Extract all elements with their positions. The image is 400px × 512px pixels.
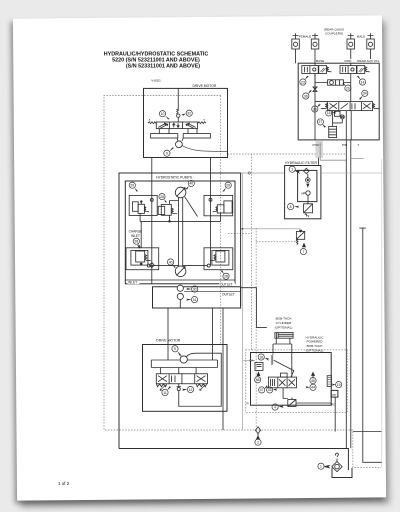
accumulator [329, 126, 337, 137]
manifold lines [151, 360, 217, 368]
filter inner box [298, 170, 317, 201]
svg-text:ROD: ROD [345, 59, 353, 63]
svg-text:BOB-TACH: BOB-TACH [307, 344, 323, 348]
relief valve TL [138, 204, 144, 213]
svg-text:40: 40 [189, 182, 193, 186]
hydraulic filter box [285, 166, 321, 219]
port circle BL [147, 264, 150, 267]
callout 43 [267, 387, 273, 393]
callout 14 [359, 79, 365, 85]
relief valve mid 28 [158, 206, 165, 214]
svg-text:HYDRAULIC FILTER: HYDRAULIC FILTER [285, 161, 318, 165]
coupler male 2 [367, 33, 375, 63]
callout 1 tank [318, 463, 324, 469]
swash diagonal [185, 197, 198, 217]
dashed pilot line C to rear aux [228, 153, 347, 155]
DA / PP / PC / R labels [247, 358, 337, 406]
callout 40 top [188, 180, 194, 186]
coupler labels [299, 28, 365, 39]
svg-text:46: 46 [311, 379, 315, 383]
svg-text:OUTLET: OUTLET [220, 283, 233, 287]
callout 18 [258, 354, 264, 360]
breather [336, 453, 339, 461]
svg-text:28: 28 [224, 275, 228, 279]
check diamond in filter [304, 168, 309, 173]
arrow into tank filter [325, 466, 330, 468]
pilot check block [334, 111, 340, 116]
svg-text:31: 31 [193, 298, 197, 302]
svg-text:4: 4 [274, 405, 276, 409]
svg-text:15: 15 [327, 111, 331, 115]
callout 44 [310, 384, 316, 390]
svg-text:19: 19 [337, 383, 341, 387]
callout 8 [288, 204, 294, 210]
callout 36 [303, 93, 309, 99]
filter element square [304, 204, 313, 213]
port circle BR [207, 264, 210, 267]
svg-text:1 of 2: 1 of 2 [58, 481, 70, 486]
spring right [198, 122, 206, 124]
svg-text:18: 18 [259, 355, 263, 359]
return loop [179, 353, 222, 406]
main spool valve [328, 102, 373, 111]
svg-text:MALE: MALE [357, 35, 365, 39]
callout 29 TR [225, 182, 231, 188]
svg-text:BASE: BASE [316, 59, 324, 63]
hydrostatic pumps box [125, 181, 235, 284]
callout 34 [362, 90, 368, 96]
wire POUT to filter [318, 158, 320, 166]
bypass circle with dot [306, 178, 311, 183]
svg-text:HYDROSTATIC PUMPS: HYDROSTATIC PUMPS [156, 175, 193, 179]
callout 9 bottom [172, 346, 178, 352]
svg-text:V-6021: V-6021 [151, 79, 161, 83]
port connection wires [150, 265, 207, 267]
callout 11 [162, 389, 168, 395]
case drain line [359, 228, 381, 462]
relief valve TR [217, 205, 224, 213]
wire right [210, 158, 212, 182]
svg-text:(OPTIONAL): (OPTIONAL) [275, 325, 293, 329]
callout 10 [159, 111, 165, 117]
relief valve V7 [296, 231, 304, 239]
bob-tach spool valve [268, 377, 296, 388]
svg-text:HYDRAULIC/HYDROSTATIC SCHEMATI: HYDRAULIC/HYDROSTATIC SCHEMATIC [104, 52, 209, 58]
svg-text:48: 48 [256, 378, 260, 382]
svg-text:CHARGE: CHARGE [129, 230, 143, 234]
motor circle M1 [176, 141, 183, 148]
stub at 159 [351, 158, 364, 160]
motor drain curve [182, 146, 228, 152]
svg-text:8: 8 [290, 205, 292, 209]
valve arrows [158, 123, 166, 127]
port circle TR [209, 198, 212, 201]
drive valve body [156, 122, 197, 129]
solenoid valve ROD [340, 66, 365, 74]
callout 19 [336, 382, 342, 388]
svg-text:1: 1 [320, 465, 322, 469]
svg-text:R: R [247, 402, 249, 406]
internal wires [315, 102, 351, 140]
callout 47 [259, 387, 265, 393]
outlet circles [177, 285, 183, 291]
pump circle P1 [175, 187, 186, 198]
callout 30 [192, 286, 198, 292]
svg-text:11: 11 [163, 391, 167, 395]
svg-text:T: T [357, 143, 359, 147]
pump circle P2 [175, 266, 186, 277]
faint right-edge trunk [241, 159, 382, 468]
bob-tach optional dashed box [246, 350, 348, 413]
bottom right horizontal [353, 431, 382, 433]
coupler male 1 [347, 33, 355, 65]
svg-text:(OPTIONAL): (OPTIONAL) [306, 349, 324, 353]
svg-text:(S/N 523311001 AND ABOVE): (S/N 523311001 AND ABOVE) [126, 64, 200, 70]
travel valve body [156, 374, 207, 384]
svg-text:29: 29 [226, 184, 230, 188]
callout 48 [255, 377, 261, 383]
svg-text:HYDRAULIC: HYDRAULIC [306, 335, 325, 339]
svg-text:33: 33 [313, 107, 317, 111]
dashed stub at pumps right [228, 233, 252, 235]
callout 28 mid [159, 194, 165, 200]
svg-text:12: 12 [189, 388, 193, 392]
charge line left [141, 181, 210, 284]
gray link wires [242, 173, 300, 430]
wires around crossover [315, 74, 351, 102]
callout 31 [191, 297, 197, 303]
PIN line down [345, 140, 347, 448]
svg-text:28: 28 [160, 195, 164, 199]
down arrow [307, 184, 309, 187]
inner bottom line [125, 279, 235, 281]
svg-text:29: 29 [130, 184, 134, 188]
svg-text:27: 27 [319, 120, 323, 124]
svg-text:INLET: INLET [131, 234, 140, 238]
CHARGE INLET label [129, 230, 143, 239]
dashed vert inside top drive motor [220, 96, 222, 345]
callout 46 [310, 378, 316, 384]
bob-tach PP port box [331, 390, 338, 397]
relief block BL [126, 248, 159, 270]
coupler female 2 [311, 33, 319, 65]
svg-text:BOB-TACH: BOB-TACH [276, 317, 292, 321]
svg-text:A: A [149, 119, 151, 122]
cross-over component [328, 80, 344, 85]
callout 7 [300, 249, 306, 255]
base line + spring [271, 353, 273, 366]
orifice hourglass [313, 74, 317, 92]
svg-text:47: 47 [260, 388, 264, 392]
svg-text:PP: PP [332, 393, 336, 397]
svg-text:28: 28 [134, 240, 138, 244]
junction circle gray [248, 172, 250, 174]
svg-text:34: 34 [363, 92, 367, 96]
outlet circles box [153, 287, 241, 308]
callout 28 charge [133, 238, 139, 244]
wire from box top to check valve [177, 88, 179, 110]
HYDROSTATIC PUMPS label [154, 175, 194, 180]
top drive motor box [144, 88, 228, 157]
tank symbol U [332, 468, 352, 478]
check valve V1 [177, 109, 179, 114]
feed wires from outlet box [168, 308, 213, 360]
bob-tach cylinder [275, 333, 293, 339]
svg-text:26: 26 [346, 86, 350, 90]
springs below ends [156, 384, 166, 387]
svg-text:2: 2 [257, 441, 259, 445]
callout 1 filter [289, 166, 295, 172]
callout 12 [187, 386, 193, 392]
callout 27 [317, 119, 323, 125]
svg-text:40: 40 [169, 260, 173, 264]
svg-text:44: 44 [311, 386, 315, 390]
relief valve BL [136, 251, 145, 262]
relief block TL [129, 195, 157, 215]
DA reducing valve [255, 362, 263, 370]
motor/bypass circle [306, 191, 310, 195]
callout 28 BR [223, 273, 229, 279]
main return diamond on dashed line [255, 427, 260, 434]
callout 40 bottom [168, 259, 174, 265]
svg-text:DA: DA [250, 358, 254, 362]
callout 29 TL [129, 182, 135, 188]
svg-text:1: 1 [291, 168, 293, 172]
callout 26 [345, 85, 351, 91]
center pump shafts [179, 198, 183, 267]
svg-text:32: 32 [187, 112, 191, 116]
callout 2 [255, 439, 261, 445]
coupler female 1 [292, 33, 300, 63]
svg-text:DRIVE MOTOR: DRIVE MOTOR [193, 84, 217, 88]
svg-text:POWERED: POWERED [307, 340, 324, 344]
outlet left wire [222, 308, 224, 430]
callout 15 [326, 110, 332, 116]
junction dot [140, 263, 142, 265]
INLET / OUTLET labels [128, 281, 238, 297]
svg-text:10: 10 [161, 112, 165, 116]
spool end springs [321, 103, 328, 108]
pump low-pressure gallery [140, 220, 220, 222]
svg-text:30: 30 [193, 287, 197, 291]
svg-text:REAR AUX VAL: REAR AUX VAL [357, 59, 379, 63]
T line down [350, 140, 352, 448]
dashed pilot line B [255, 228, 257, 427]
POUT gray band [316, 140, 323, 158]
pump assembly outer box [119, 173, 241, 449]
shuttle check [177, 384, 182, 387]
manifold lines [159, 129, 197, 134]
callout 9 (top motor) [164, 150, 170, 156]
wires inside bob-tach [283, 388, 335, 432]
bottom check valve [288, 400, 296, 407]
callout 4 [272, 404, 278, 410]
bob-tach inner box [251, 353, 332, 406]
bottom drive motor box [143, 345, 228, 412]
lever diagonal [274, 360, 294, 377]
svg-text:9: 9 [166, 152, 168, 156]
relief block BR [204, 248, 233, 270]
svg-text:36: 36 [304, 94, 308, 98]
svg-text:FEMALE: FEMALE [299, 35, 311, 39]
callout 32 [186, 110, 192, 116]
rod line [291, 353, 293, 378]
motor circle M2 [180, 356, 187, 363]
cylinder mount [273, 338, 292, 352]
svg-text:23: 23 [301, 80, 305, 84]
solenoid valve BASE [302, 66, 327, 74]
wire left [151, 158, 153, 182]
tank filter diamond [332, 462, 342, 472]
dashed travel-circuit boundary [104, 96, 381, 468]
dashed pilot line A [251, 154, 253, 351]
port circle TL [150, 198, 153, 201]
supply wire from outlet box [241, 288, 267, 328]
callout 23 [300, 79, 306, 85]
bottom reservoir outline [119, 449, 348, 471]
rear aux port labels [313, 59, 380, 147]
svg-text:INLET: INLET [128, 281, 137, 285]
svg-text:9: 9 [174, 347, 176, 351]
up arrow right of valve [312, 373, 315, 379]
svg-text:OUTLET: OUTLET [222, 292, 235, 296]
dashed stub to relief valve [256, 241, 296, 243]
svg-text:43: 43 [268, 388, 272, 392]
svg-text:PC: PC [331, 402, 335, 406]
relief valve BR [216, 251, 225, 262]
svg-text:CYLINDER: CYLINDER [276, 321, 292, 325]
callout 33 [312, 106, 318, 112]
rear aux valve box [298, 63, 379, 140]
check diamond on charge line [149, 263, 154, 268]
relief block TR [204, 195, 233, 215]
title block [104, 52, 209, 70]
filter wires [307, 174, 309, 204]
spring left [148, 122, 156, 124]
svg-text:7: 7 [302, 250, 304, 254]
svg-text:COUPLERS): COUPLERS) [325, 32, 343, 36]
charge inlet arrow [137, 245, 141, 250]
svg-text:14: 14 [361, 80, 365, 84]
FREE detent rect [327, 376, 331, 387]
arrow into filter [295, 170, 300, 173]
svg-text:DRIVE MOTOR: DRIVE MOTOR [156, 338, 180, 342]
